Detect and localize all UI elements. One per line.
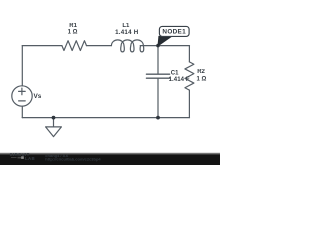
CircuitLab logo bright mark — [21, 156, 24, 159]
wire top-left horizontal segment — [22, 45, 62, 47]
junction dot bottom (capacitor branch) — [156, 116, 160, 120]
ground stem — [53, 118, 55, 127]
inductor L1 — [111, 40, 143, 52]
NODE1 flag pointer triangle — [158, 36, 172, 45]
svg-text:Vs: Vs — [34, 93, 42, 100]
Vs plus sign — [19, 88, 26, 95]
CircuitLab logo dashes — [11, 156, 23, 159]
wire left vertical lower (Vs to bottom) — [21, 106, 23, 117]
svg-text:1 Ω: 1 Ω — [68, 30, 78, 36]
NODE1 flag box — [159, 26, 189, 36]
svg-text:C1: C1 — [171, 70, 179, 76]
junction dot ground — [52, 116, 56, 120]
Vs minus sign — [19, 100, 26, 102]
capacitor C1 bottom lead — [157, 79, 159, 118]
voltage source Vs circle — [12, 86, 32, 106]
wire left vertical upper (to Vs) — [21, 46, 23, 86]
node junction dot at NODE1 — [156, 44, 160, 48]
ground triangle — [46, 127, 62, 137]
wire bottom horizontal — [22, 117, 189, 119]
svg-text:LAB: LAB — [25, 156, 35, 161]
wire between R1 and L1 — [87, 45, 112, 47]
wire right vertical upper (to R2) — [188, 46, 190, 62]
resistor R2 — [185, 62, 194, 90]
wire from L1 to right corner — [140, 45, 189, 47]
capacitor C1 top lead — [157, 46, 159, 74]
svg-text:1 Ω: 1 Ω — [197, 76, 207, 82]
svg-text:NODE1: NODE1 — [162, 29, 186, 36]
svg-text:1.414 F: 1.414 F — [169, 77, 190, 83]
capacitor C1 plates — [146, 74, 169, 78]
svg-text:http://circuitlab.com/c2c3bp4: http://circuitlab.com/c2c3bp4 — [45, 157, 101, 162]
svg-text:R2: R2 — [197, 69, 205, 75]
svg-text:1.414 H: 1.414 H — [115, 29, 139, 36]
svg-text:R1: R1 — [69, 23, 77, 29]
wire right vertical lower (R2 to bottom) — [188, 90, 190, 118]
resistor R1 — [62, 41, 87, 51]
